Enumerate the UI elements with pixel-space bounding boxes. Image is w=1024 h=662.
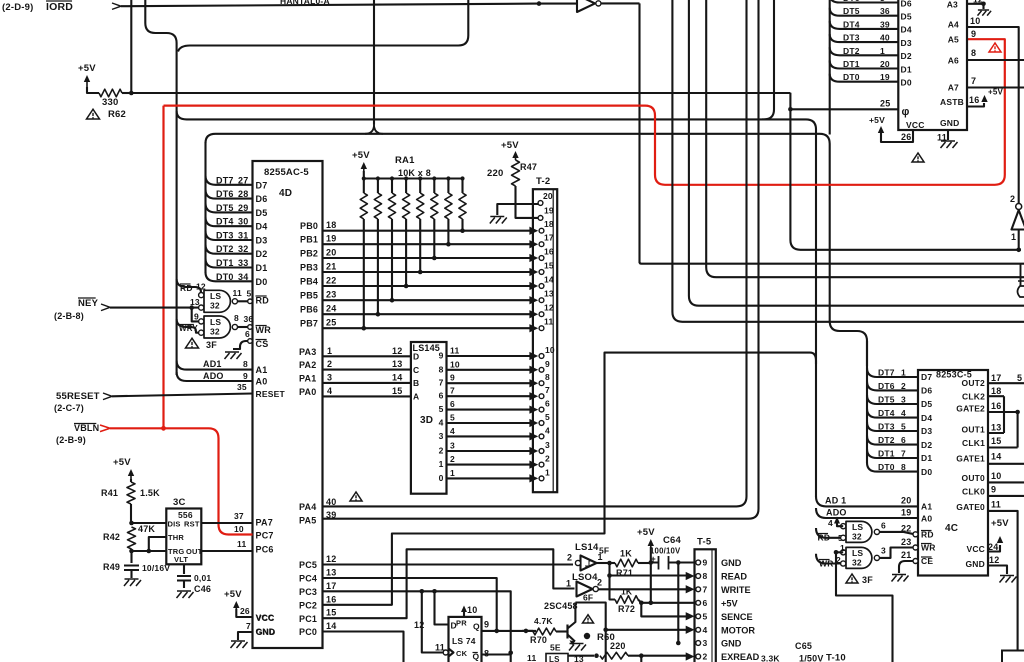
svg-text:8: 8 [243,359,248,369]
svg-text:NEY: NEY [78,298,99,309]
svg-text:VCC: VCC [906,120,925,130]
svg-text:18: 18 [326,220,336,230]
svg-text:14: 14 [991,452,1001,462]
svg-text:PC7: PC7 [256,531,274,541]
svg-text:A: A [413,392,419,402]
svg-text:21: 21 [901,550,911,560]
svg-text:12: 12 [326,554,336,564]
svg-text:15: 15 [544,261,554,271]
8253 CE pin ground [892,550,934,582]
svg-text:16: 16 [991,401,1001,411]
LS32 gate 4-5-6 [841,521,880,542]
svg-text:R62: R62 [108,109,126,120]
capacitor C64 100/10V [650,535,682,570]
svg-text:8: 8 [971,48,976,58]
svg-text:CLK2: CLK2 [962,392,985,402]
svg-text:15: 15 [392,386,402,396]
junction dot READ [607,573,612,578]
svg-text:20: 20 [901,496,911,506]
svg-text:R49: R49 [103,562,120,572]
svg-text:DT6: DT6 [878,381,895,391]
bus vertical x=176.6 at 8255 left [176,43,178,375]
8253 WR bus entry [816,554,843,564]
svg-text:PC4: PC4 [299,574,317,584]
svg-text:+5V: +5V [352,150,370,161]
8255 GND pin7 to ground [231,621,276,648]
svg-text:22: 22 [901,524,911,534]
svg-text:1: 1 [901,368,906,378]
text HANTAL partial [280,0,330,6]
text RA1 10Kx8 [395,155,431,178]
svg-text:3: 3 [880,0,885,3]
red wire VBLN to PC7 [110,428,253,534]
svg-text:φ: φ [902,106,910,118]
svg-text:D3: D3 [256,236,268,246]
svg-text:LS14: LS14 [575,542,599,553]
vertical DT bus x=829.7 from top [829,0,831,135]
svg-text:3: 3 [439,431,444,441]
svg-text:A5: A5 [948,35,959,45]
svg-text:31: 31 [238,231,248,241]
svg-text:25: 25 [326,318,336,328]
mystery junction dot [584,633,590,639]
partial gate at right edge y=290 [1018,264,1024,297]
svg-text:DT4: DT4 [878,408,895,418]
svg-text:D4: D4 [921,413,932,423]
svg-text:1: 1 [598,552,603,562]
+5V arrow at R62 [78,63,96,87]
svg-text:R47: R47 [520,162,537,172]
svg-text:4: 4 [327,386,332,396]
svg-text:PB6: PB6 [300,305,318,315]
junction dot R41-R42 [129,521,134,526]
svg-text:PC0: PC0 [299,627,317,637]
net label 55RESET (2-C-7) [54,391,112,413]
svg-text:9: 9 [439,351,444,361]
svg-text:6: 6 [545,399,550,409]
connector T-5 box [695,537,716,662]
bus vertical x=867 for 8253 DT [866,341,868,463]
vertical x=688.9 to y=305.7 corner [689,0,1024,306]
svg-text:2SC458: 2SC458 [544,601,578,611]
wire NEY branch down to gate2 [192,308,199,322]
svg-text:DT7: DT7 [216,175,234,185]
svg-text:LS: LS [852,548,863,558]
wire NEY to gate inputs [110,307,199,309]
svg-text:7: 7 [439,378,444,388]
svg-text:A3: A3 [947,0,958,10]
svg-text:C46: C46 [194,584,211,594]
svg-text:10: 10 [970,16,980,26]
svg-text:19: 19 [901,508,911,518]
svg-text:2: 2 [545,454,550,464]
svg-text:PB5: PB5 [300,291,318,301]
svg-text:14: 14 [544,275,554,285]
svg-text:Q: Q [473,622,480,632]
svg-text:DT1: DT1 [216,258,234,268]
svg-text:18: 18 [544,219,554,229]
warning triangle 3F at 8253 [846,574,873,585]
8255 PA5 wire [299,510,336,526]
DT trunk corner to 8253 bus [830,321,867,366]
svg-text:PA2: PA2 [299,360,316,370]
svg-text:8: 8 [545,372,550,382]
svg-text:47K: 47K [138,524,155,534]
wire 555 OUT to 8255 PC6 pin11 [201,539,273,555]
svg-text:(2-D-9): (2-D-9) [2,2,33,13]
red warning triangle [989,43,1001,52]
svg-text:CLK0: CLK0 [962,487,985,497]
LS74 D pin 12 [414,620,457,631]
svg-text:5: 5 [1017,373,1022,383]
svg-text:10K x 8: 10K x 8 [398,168,431,178]
vertical x=774 top to y=119.4 [762,0,774,119]
svg-text:10: 10 [545,345,555,355]
junction dot R62 node [129,91,134,96]
svg-text:5E: 5E [550,643,561,653]
LS74 Qbar pin 8 wire [473,649,511,662]
svg-text:9: 9 [450,373,455,383]
top chip GND pin 11 [937,118,960,148]
inverter 5B [577,0,601,12]
svg-text:PA3: PA3 [299,347,316,357]
svg-text:D7: D7 [256,180,268,190]
svg-text:PC6: PC6 [256,545,274,555]
svg-text:(2-B-8): (2-B-8) [54,311,84,321]
+5V arrow above R41 [113,457,134,479]
IC 8255AC-5 4D box [253,161,323,648]
svg-text:6: 6 [439,391,444,401]
LS74 CK pin 11 [435,643,468,659]
svg-text:DT3: DT3 [216,231,234,241]
warning triangle near collector [583,615,594,623]
svg-text:DT0: DT0 [216,272,234,282]
svg-text:R41: R41 [101,488,118,498]
wire READ [610,574,689,576]
svg-text:5: 5 [545,412,550,422]
8253 RD bus entry [816,528,843,543]
svg-text:DT5: DT5 [878,395,895,405]
svg-text:1K: 1K [621,587,633,597]
svg-text:DT2: DT2 [216,244,234,254]
svg-text:17: 17 [991,373,1001,383]
svg-text:D2: D2 [256,249,268,259]
LS145 outputs to T-2 pins [439,346,535,483]
svg-text:5: 5 [247,289,252,299]
text C65 1/50V T-10 [795,641,846,662]
svg-text:29: 29 [238,203,248,213]
svg-text:SENCE: SENCE [721,612,753,622]
junction dot GATE2 [1015,410,1020,415]
svg-text:A6: A6 [948,56,959,66]
inverter LS14 5F [567,542,609,571]
svg-text:VBLN: VBLN [74,423,99,433]
svg-text:C: C [413,365,419,375]
svg-text:GATE2: GATE2 [956,404,985,414]
svg-text:OUT: OUT [186,547,203,556]
junction dot rail bottom [649,601,654,606]
svg-text:9: 9 [484,620,489,630]
resistor R72 1K [615,587,641,615]
svg-text:2: 2 [703,652,708,662]
svg-text:PB0: PB0 [300,221,318,231]
inverter 2-1 at right edge [1010,194,1024,250]
junction dot PC4-Q [494,629,499,634]
svg-text:19: 19 [880,72,890,82]
svg-text:11: 11 [450,346,459,356]
8255 CS pin6 to ground [225,329,269,359]
ADO bus entry to 8255 A0 [177,371,268,387]
svg-text:DT2: DT2 [878,435,895,445]
junction dot R42-cap [129,549,134,554]
svg-text:34: 34 [238,272,248,282]
svg-text:5: 5 [450,413,455,423]
svg-text:DT3: DT3 [843,33,860,43]
svg-text:5: 5 [703,611,708,621]
wire inverter output to bus corner [601,2,640,4]
8253 right pins [956,373,1024,651]
T-2 pins 20-11 [529,191,554,332]
svg-text:B: B [413,378,419,388]
PA4 riser x=746.5 [323,0,747,506]
svg-text:10: 10 [991,471,1001,481]
svg-text:D6: D6 [921,386,932,396]
svg-text:+5V: +5V [224,589,242,600]
junction dot THR branch [147,549,152,554]
svg-text:PB7: PB7 [300,319,318,329]
svg-text:D2: D2 [901,51,912,61]
svg-text:8: 8 [703,571,708,581]
long wire y=263.7 from inverter bus [640,262,1024,264]
svg-text:8: 8 [234,313,239,323]
svg-text:1: 1 [566,579,571,589]
wire gate2 pin1 riser [836,552,893,662]
svg-text:PA4: PA4 [299,502,316,512]
wire R72 node to T-5 +5V pin [641,602,695,604]
svg-text:PA7: PA7 [256,518,273,528]
svg-text:D4: D4 [256,222,268,232]
svg-text:PA5: PA5 [299,516,316,526]
svg-text:PB4: PB4 [300,277,318,287]
text 4D [279,188,292,199]
svg-text:17: 17 [326,581,336,591]
svg-text:556: 556 [178,510,193,520]
8255 PC5 wire to LS14 [299,554,573,570]
resistor R41 1.5K [101,479,160,523]
8255 PA4 wire [299,497,336,512]
svg-text:8: 8 [439,364,444,374]
svg-text:13: 13 [392,359,402,369]
top chip ASTB pin 16 +5V [940,88,1003,108]
phi wire to chip pin 25 [790,108,898,110]
wire R47 to T-2 pin19 [516,186,539,218]
svg-text:220: 220 [487,168,503,179]
wire gate 5E to R60 [568,655,594,657]
svg-text:T-2: T-2 [536,176,550,187]
svg-text:VLT: VLT [174,555,188,564]
IC 8253C-5 4C box [918,370,988,576]
wire R42 node to 555 TRG [132,550,167,552]
bus wire y=133.8 DT trunk [206,134,830,322]
svg-text:3: 3 [545,440,550,450]
svg-text:GATE1: GATE1 [956,454,985,464]
LS32 gate 3F-1 [190,290,237,312]
svg-text:VCC: VCC [256,613,275,623]
svg-text:9: 9 [703,558,708,568]
RD bus entry to gate 3F [177,279,206,295]
svg-text:+5V: +5V [78,63,96,74]
junction dot on IORD wire [537,1,542,6]
svg-text:(2-B-9): (2-B-9) [56,435,86,445]
resistor R47 220 [487,160,537,186]
junction dot gate2 pin1 [834,550,839,555]
collector wire to MOTOR riser [575,603,605,662]
svg-text:3: 3 [450,441,455,451]
svg-text:WR: WR [256,325,272,335]
svg-text:37: 37 [234,511,244,521]
svg-text:6F: 6F [583,593,593,603]
svg-text:+5V: +5V [869,115,885,125]
svg-text:D7: D7 [921,372,932,382]
svg-text:7: 7 [545,385,550,395]
svg-text:12: 12 [392,346,402,356]
svg-text:D0: D0 [256,277,268,287]
svg-text:11: 11 [527,653,536,662]
svg-text:GATE0: GATE0 [956,502,985,512]
svg-text:26: 26 [240,606,250,616]
net label VBLN (2-B-9) [56,423,110,445]
svg-text:4D: 4D [279,188,292,199]
top chip phi pin 25 [880,99,910,119]
wire jog from top x=145.3 to bus x=176.6 [145,0,176,43]
svg-text:DT4: DT4 [843,19,860,29]
svg-text:RST: RST [184,520,200,529]
svg-text:OUT1: OUT1 [962,425,986,435]
8253 VCC +5V [966,518,1009,554]
svg-text:19: 19 [544,206,554,216]
8253 AD1 entry [816,496,932,512]
svg-text:DT6: DT6 [843,0,860,3]
wire gate1 to 8253 RD [880,521,915,535]
svg-text:DT0: DT0 [878,462,895,472]
svg-text:A4: A4 [948,20,959,30]
svg-text:LS: LS [210,291,221,301]
wire THR branch [149,537,167,551]
8255 PA3-PA0 wires to LS145 [299,346,419,402]
text 8255AC-5 [264,167,309,178]
svg-text:2: 2 [439,446,444,456]
8255 data bus entries DT7-DT0 [206,175,268,286]
svg-text:VCC: VCC [966,544,985,554]
junction dot C64-GND riser [676,560,681,565]
svg-text:A0: A0 [256,377,268,387]
GND riser to pin3 [677,563,679,644]
PA5 riser x=758.5 [323,0,759,519]
wire LS14 out [597,562,610,564]
top chip VCC pin 26 [869,115,925,142]
svg-text:D0: D0 [921,467,932,477]
svg-text:OUT0: OUT0 [962,473,986,483]
svg-text:14: 14 [392,372,402,382]
svg-text:3: 3 [327,372,332,382]
svg-text:PB2: PB2 [300,249,318,259]
wire T-2 pin20 to ground [490,204,539,224]
8253 GND [966,555,1017,583]
svg-text:OUT2: OUT2 [962,378,986,388]
junction dot LS14 out [607,561,612,566]
svg-text:26: 26 [901,132,911,142]
svg-text:C65: C65 [795,641,812,651]
IC 8279 box top right [898,0,967,130]
svg-text:1: 1 [450,468,455,478]
svg-text:LS: LS [852,522,863,532]
svg-text:20: 20 [880,59,890,69]
svg-text:T-5: T-5 [697,537,712,548]
svg-text:13: 13 [326,568,336,578]
svg-text:1: 1 [439,459,444,469]
resistor R60 220 [597,632,628,659]
svg-text:+5V: +5V [988,88,1004,97]
svg-text:+5V: +5V [113,457,131,468]
svg-text:CK: CK [456,649,468,658]
svg-text:EXREAD: EXREAD [721,652,760,662]
svg-text:PA0: PA0 [299,387,316,397]
svg-text:5: 5 [439,404,444,414]
svg-text:35: 35 [237,382,247,392]
8255 PC1 wire route to LSO4 [299,549,575,624]
junction dot PC3 to D riser [432,589,437,594]
junction dot phi [788,107,793,112]
wire LS14 out down to R72 [610,563,616,600]
svg-text:2: 2 [1010,194,1015,204]
junction dot inverter input [1016,248,1021,253]
svg-text:15: 15 [326,608,336,618]
svg-text:24: 24 [988,542,998,552]
svg-text:D6: D6 [256,194,268,204]
svg-text:21: 21 [326,262,336,272]
svg-text:T-10: T-10 [826,653,846,662]
IC 555 timer 3C box [166,497,202,564]
svg-text:12: 12 [989,555,999,565]
svg-text:PA1: PA1 [299,373,316,383]
svg-text:3: 3 [901,395,906,405]
svg-text:PC1: PC1 [299,614,317,624]
svg-text:LS: LS [549,655,560,662]
svg-text:8: 8 [484,649,489,659]
svg-text:2: 2 [567,553,572,563]
svg-text:16: 16 [969,95,979,105]
svg-text:MOTOR: MOTOR [721,625,755,635]
wire SENCE riser [641,603,688,617]
resistor R62 330 [87,87,131,97]
svg-text:9: 9 [545,359,550,369]
svg-text:11: 11 [544,317,553,327]
svg-text:32: 32 [210,326,220,336]
svg-text:ADO: ADO [203,371,224,381]
svg-text:11: 11 [237,539,246,549]
svg-text:2: 2 [597,578,602,588]
svg-text:DT1: DT1 [878,449,895,459]
svg-text:23: 23 [901,537,911,547]
LS74 Q pin 9 wire to R70 [473,620,536,632]
vertical wire from inverter output down x=639.5 [638,3,640,263]
svg-text:DT2: DT2 [843,46,860,56]
IC LS74 box [449,617,482,662]
8255 port B wires PB0-PB7 to T-2 [300,220,535,329]
svg-text:R70: R70 [530,635,547,645]
svg-text:6: 6 [901,435,906,445]
LS32 gate 3F-2 [199,316,238,338]
